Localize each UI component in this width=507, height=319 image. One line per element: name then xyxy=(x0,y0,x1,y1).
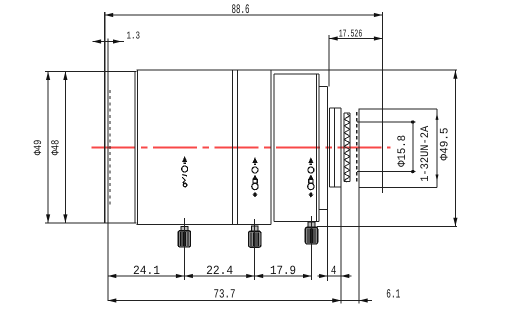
rear step ring bottom xyxy=(319,209,328,211)
dimension 24.1 xyxy=(108,275,185,277)
front ring right edge A xyxy=(134,72,136,223)
front bezel rim line xyxy=(107,38,109,301)
dimension Phi15.8 image circle xyxy=(357,121,416,123)
thread root hidden line xyxy=(356,112,358,183)
dimension 6.1 xyxy=(330,300,372,302)
svg-text:Φ49: Φ49 xyxy=(33,140,45,156)
thread right line xyxy=(349,113,351,182)
dimension 1-32UN-2A mount thread xyxy=(436,113,439,120)
lens front face xyxy=(104,12,106,223)
zoom ring right edge A xyxy=(315,74,317,222)
thread top cap xyxy=(344,112,350,114)
focus lock icon group xyxy=(182,156,188,187)
wire extension left bottom + front ring bottom xyxy=(45,222,136,224)
extension line 17.526 left xyxy=(328,35,330,87)
focus ring right edge xyxy=(232,70,234,224)
knob2 center extension xyxy=(254,219,256,280)
thread left line xyxy=(343,113,345,182)
thumb screw knob 1 xyxy=(178,227,190,248)
rear barrel top xyxy=(359,108,437,110)
svg-text:6.1: 6.1 xyxy=(386,287,400,301)
dimension 1.3 front rim xyxy=(93,41,124,43)
front hidden edge dashed xyxy=(109,90,111,208)
zoom lock icon group xyxy=(308,157,314,198)
mount base bottom xyxy=(330,186,342,188)
wire extension left top + front ring top xyxy=(45,71,136,73)
mount base inner edge xyxy=(333,108,335,187)
svg-text:Φ49.5: Φ49.5 xyxy=(438,127,451,160)
wire barrel and mid ring bottom xyxy=(136,224,271,226)
optical axis centerline xyxy=(91,146,390,148)
svg-text:22.4: 22.4 xyxy=(206,264,233,278)
dimension 73.7 xyxy=(108,300,341,302)
svg-text:1-32UN-2A: 1-32UN-2A xyxy=(419,126,432,182)
dimension Phi49 focus ring diameter xyxy=(47,72,49,223)
svg-text:24.1: 24.1 xyxy=(133,264,160,278)
thread bottom cap xyxy=(344,181,350,183)
mid ring right edge xyxy=(270,70,272,224)
mount base left edge xyxy=(329,108,331,187)
svg-text:1.3: 1.3 xyxy=(127,31,141,43)
dimension 4 xyxy=(318,275,352,277)
dimension 88.6 overall length xyxy=(105,14,383,16)
rear barrel bottom xyxy=(359,187,437,189)
thumb screw knob 2 xyxy=(249,226,261,247)
zoom ring top edge xyxy=(274,73,319,75)
svg-text:17.526: 17.526 xyxy=(339,29,363,41)
svg-text:4: 4 xyxy=(331,264,337,278)
thumb screw knob 3 xyxy=(305,222,317,244)
svg-text:Φ15.8: Φ15.8 xyxy=(396,135,409,167)
knob3 center extension xyxy=(311,216,313,280)
focus ring left edge xyxy=(137,70,139,224)
knob1 center extension xyxy=(183,218,185,280)
rear step ring right edge xyxy=(327,87,329,282)
dimension Phi49.5 max diameter xyxy=(454,70,456,226)
aperture lock icon group xyxy=(252,157,258,198)
dimension 17.526 flange distance xyxy=(329,38,382,40)
dimension 22.4 xyxy=(184,275,254,277)
svg-text:Φ48: Φ48 xyxy=(50,140,62,156)
svg-text:73.7: 73.7 xyxy=(214,288,236,302)
extension line right (image plane) xyxy=(381,12,383,193)
svg-text:17.9: 17.9 xyxy=(270,264,296,278)
mid ring left edge xyxy=(236,70,238,224)
svg-text:88.6: 88.6 xyxy=(232,2,250,17)
mount flange face xyxy=(340,108,342,303)
rear barrel right edge xyxy=(436,109,438,188)
zoom ring left edge xyxy=(273,74,275,222)
mount base top xyxy=(330,107,342,109)
wire barrel top + right extension xyxy=(136,69,457,71)
zoom ring bottom edge xyxy=(274,221,319,223)
dimension Phi48 front ring diameter xyxy=(64,72,66,223)
dimension 17.9 xyxy=(255,275,312,277)
rear barrel left edge xyxy=(358,108,360,303)
rear step ring top xyxy=(319,86,328,88)
wire right bottom extension xyxy=(316,225,457,227)
zoom ring right edge B xyxy=(318,74,320,222)
thread crest squiggle xyxy=(345,114,349,182)
